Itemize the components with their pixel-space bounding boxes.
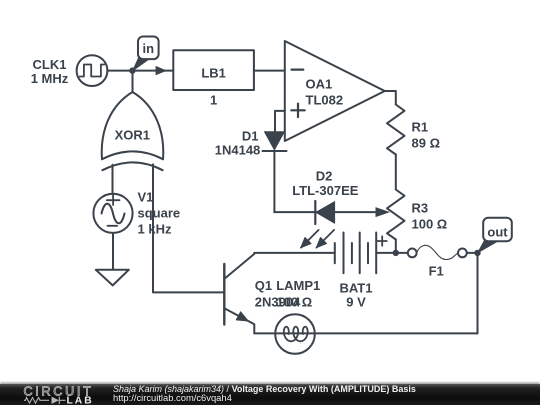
wire out node down to lamp row — [477, 253, 479, 334]
label BAT1 9 V — [340, 281, 373, 310]
junction node dot — [129, 67, 135, 73]
label CLK1 1 MHz — [31, 57, 69, 86]
svg-text:LB1: LB1 — [201, 66, 226, 81]
block LB1 — [173, 50, 254, 90]
wire XOR1 input A to V1 — [112, 165, 114, 194]
wire XOR1 input B down — [153, 164, 224, 292]
ground — [96, 270, 129, 286]
wire R1 to R3 — [395, 155, 397, 190]
svg-text:1: 1 — [210, 92, 217, 107]
wire emitter to lamp and on to out node — [254, 332, 477, 334]
wire op-amp + input to D1 — [275, 111, 285, 132]
svg-text:OA1: OA1 — [306, 77, 333, 92]
wire LB1 to op-amp inverting input — [254, 70, 285, 72]
wire D1 cathode down to LED row — [273, 151, 275, 212]
label LAMP1 100 ohm — [276, 278, 320, 310]
wire V1 to ground — [112, 233, 114, 270]
diode D1 1N4148 — [263, 132, 287, 151]
svg-text:R1: R1 — [412, 120, 429, 135]
svg-text:1 MHz: 1 MHz — [31, 71, 69, 86]
resistor R3 — [387, 190, 405, 240]
svg-text:89 Ω: 89 Ω — [412, 136, 441, 151]
signal flow arrow — [156, 66, 167, 75]
svg-text:square: square — [138, 206, 181, 221]
label R3 100 ohm — [412, 201, 448, 232]
potentiometer wiper arrow into R3 — [376, 207, 391, 217]
voltage source V1 — [93, 194, 132, 233]
lamp LAMP1 — [275, 314, 315, 354]
svg-text:Q1: Q1 — [255, 278, 272, 293]
fuse F1 — [399, 245, 478, 259]
svg-text:100 Ω: 100 Ω — [276, 295, 312, 310]
node flag in — [133, 37, 159, 71]
svg-text:BAT1: BAT1 — [340, 281, 373, 296]
wire R3 to battery node — [395, 240, 397, 253]
svg-text:XOR1: XOR1 — [115, 128, 150, 143]
wire op-amp output to R1 — [385, 91, 396, 105]
clock source CLK1 — [77, 55, 108, 86]
circuitlab logo — [0, 384, 110, 405]
transistor Q1 — [224, 253, 254, 334]
svg-text:V1: V1 — [138, 190, 154, 205]
svg-text:LAMP1: LAMP1 — [276, 278, 320, 293]
svg-text:out: out — [487, 224, 508, 239]
svg-text:1N4148: 1N4148 — [215, 143, 261, 158]
node at battery + — [393, 250, 399, 256]
battery BAT1 — [335, 233, 396, 274]
svg-text:1 kHz: 1 kHz — [138, 222, 172, 237]
wire collector row to battery — [254, 252, 334, 254]
svg-text:R3: R3 — [412, 201, 429, 216]
node dot at out — [474, 250, 480, 256]
footer text — [113, 385, 416, 394]
xor gate XOR1 — [102, 71, 164, 171]
svg-text:100 Ω: 100 Ω — [412, 217, 448, 232]
footer bar — [0, 384, 540, 405]
wire CLK1 to LB1 — [107, 70, 173, 72]
label D2 LTL-307EE — [292, 169, 359, 198]
svg-text:LTL-307EE: LTL-307EE — [292, 183, 359, 198]
svg-text:D2: D2 — [316, 169, 333, 184]
node flag out — [478, 218, 512, 253]
label R1 89 ohm — [412, 120, 441, 151]
resistor R1 — [387, 105, 405, 155]
svg-text:LAB: LAB — [67, 396, 94, 405]
label Q1 2N3904 — [255, 278, 301, 310]
svg-text:F1: F1 — [429, 263, 444, 278]
svg-text:D1: D1 — [242, 128, 259, 143]
label V1 square 1 kHz — [138, 190, 181, 237]
led D2 LTL-307EE — [274, 201, 374, 248]
op-amp OA1 TL082 — [285, 41, 385, 141]
svg-text:9 V: 9 V — [346, 294, 366, 309]
label D1 1N4148 — [215, 128, 261, 157]
svg-text:TL082: TL082 — [306, 93, 344, 108]
svg-text:in: in — [143, 41, 155, 56]
